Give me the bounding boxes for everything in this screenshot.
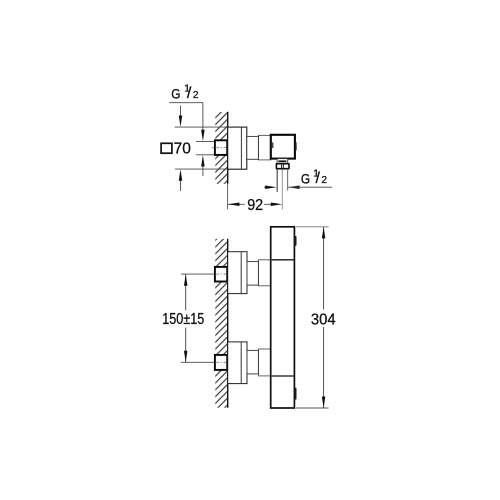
body joint line lower — [272, 375, 294, 377]
thermostat body — [271, 227, 295, 408]
shaft under G1/2 outlet label — [288, 186, 332, 188]
wire wall face line (lower view) — [227, 239, 229, 408]
upper escutcheon — [228, 252, 247, 294]
tab on body right edge (lower) — [294, 388, 296, 400]
outlet collar nut — [276, 164, 289, 169]
G1/2 lower arrow shaft — [202, 165, 204, 176]
upper union section A — [247, 262, 258, 286]
centerline of inlet nipple (upper view) — [212, 147, 215, 149]
svg-text:G: G — [171, 86, 180, 101]
svg-text:G: G — [301, 172, 310, 187]
sq.70 lower arrow shaft — [180, 180, 182, 191]
arrow to pipe right wall — [288, 185, 300, 189]
dimension G1/2 at outlet — [264, 186, 266, 188]
valve neck section A — [247, 136, 259, 159]
svg-text:2: 2 — [193, 90, 199, 101]
arrow to flange bottom edge — [179, 169, 183, 181]
centerline dashes in lower nipple — [216, 361, 226, 363]
svg-text:/: / — [316, 170, 321, 187]
arrow to pipe left wall — [265, 185, 277, 189]
upper G1/2 nipple square — [215, 267, 227, 282]
G1/2 inlet nipple square (upper view) — [215, 140, 227, 155]
upper escutcheon face line — [240, 252, 242, 293]
dimension 92 — [228, 203, 245, 205]
body joint line upper — [272, 259, 294, 261]
escutcheon face line — [240, 128, 242, 169]
extension line flange top (sq.70) — [175, 126, 228, 128]
svg-text:304: 304 — [311, 311, 336, 328]
extension line nipple bottom (G 1/2) — [196, 154, 215, 156]
square escutcheon (upper view) — [228, 127, 247, 169]
extension line upper connection axis — [181, 273, 215, 275]
arrow to nipple top edge — [201, 130, 205, 142]
svg-text:150±15: 150±15 — [162, 311, 204, 328]
arrow to nipple bottom edge — [201, 155, 205, 167]
inner mark on cube left edge — [272, 142, 274, 148]
outlet pipe axis line — [281, 170, 283, 210]
arrow to flange top edge — [179, 116, 183, 128]
outlet neck below cube — [277, 159, 288, 164]
upper union section B — [258, 260, 270, 286]
dimension 150±15 — [185, 274, 187, 310]
centerline dashes in upper nipple — [216, 273, 226, 275]
tab on body right edge (upper) — [294, 236, 296, 246]
centerline dashes inside nipple — [216, 147, 226, 149]
extension line body bottom — [296, 407, 329, 409]
square symbol of dim 70 — [161, 143, 172, 153]
cube valve body — [271, 135, 295, 159]
lower G1/2 nipple square — [215, 355, 227, 370]
svg-text:2: 2 — [321, 175, 327, 186]
extension line from wall for 92 dim — [227, 184, 229, 210]
collar facet line 1 — [281, 164, 283, 168]
tab on cube right edge — [295, 142, 297, 151]
extension line flange bottom (sq.70) — [175, 168, 228, 170]
sq.70 upper arrow shaft — [180, 106, 182, 117]
extension line body top — [296, 226, 329, 228]
wall hatching (lower view) — [215, 239, 227, 408]
svg-text:/: / — [187, 85, 192, 102]
svg-text:92: 92 — [247, 197, 263, 214]
extension line nipple top (G 1/2) — [196, 140, 215, 142]
outlet neck shoulder line — [278, 160, 286, 162]
lower union section A — [247, 350, 258, 374]
valve neck section B — [258, 135, 270, 160]
lower escutcheon face line — [240, 342, 242, 383]
svg-text:70: 70 — [174, 141, 191, 158]
wire wall face line (upper view) — [227, 112, 229, 184]
lower union section B — [258, 349, 270, 376]
collar facet line 2 — [282, 164, 284, 168]
wall hatching (upper view) — [215, 112, 227, 184]
outlet pipe right wall — [287, 169, 289, 191]
outlet pipe left wall — [276, 169, 278, 192]
extension line lower connection axis — [181, 361, 215, 363]
leader drop to nipple top — [202, 103, 204, 131]
lower escutcheon — [228, 342, 247, 384]
leader line under G1/2 (top) — [169, 102, 203, 104]
